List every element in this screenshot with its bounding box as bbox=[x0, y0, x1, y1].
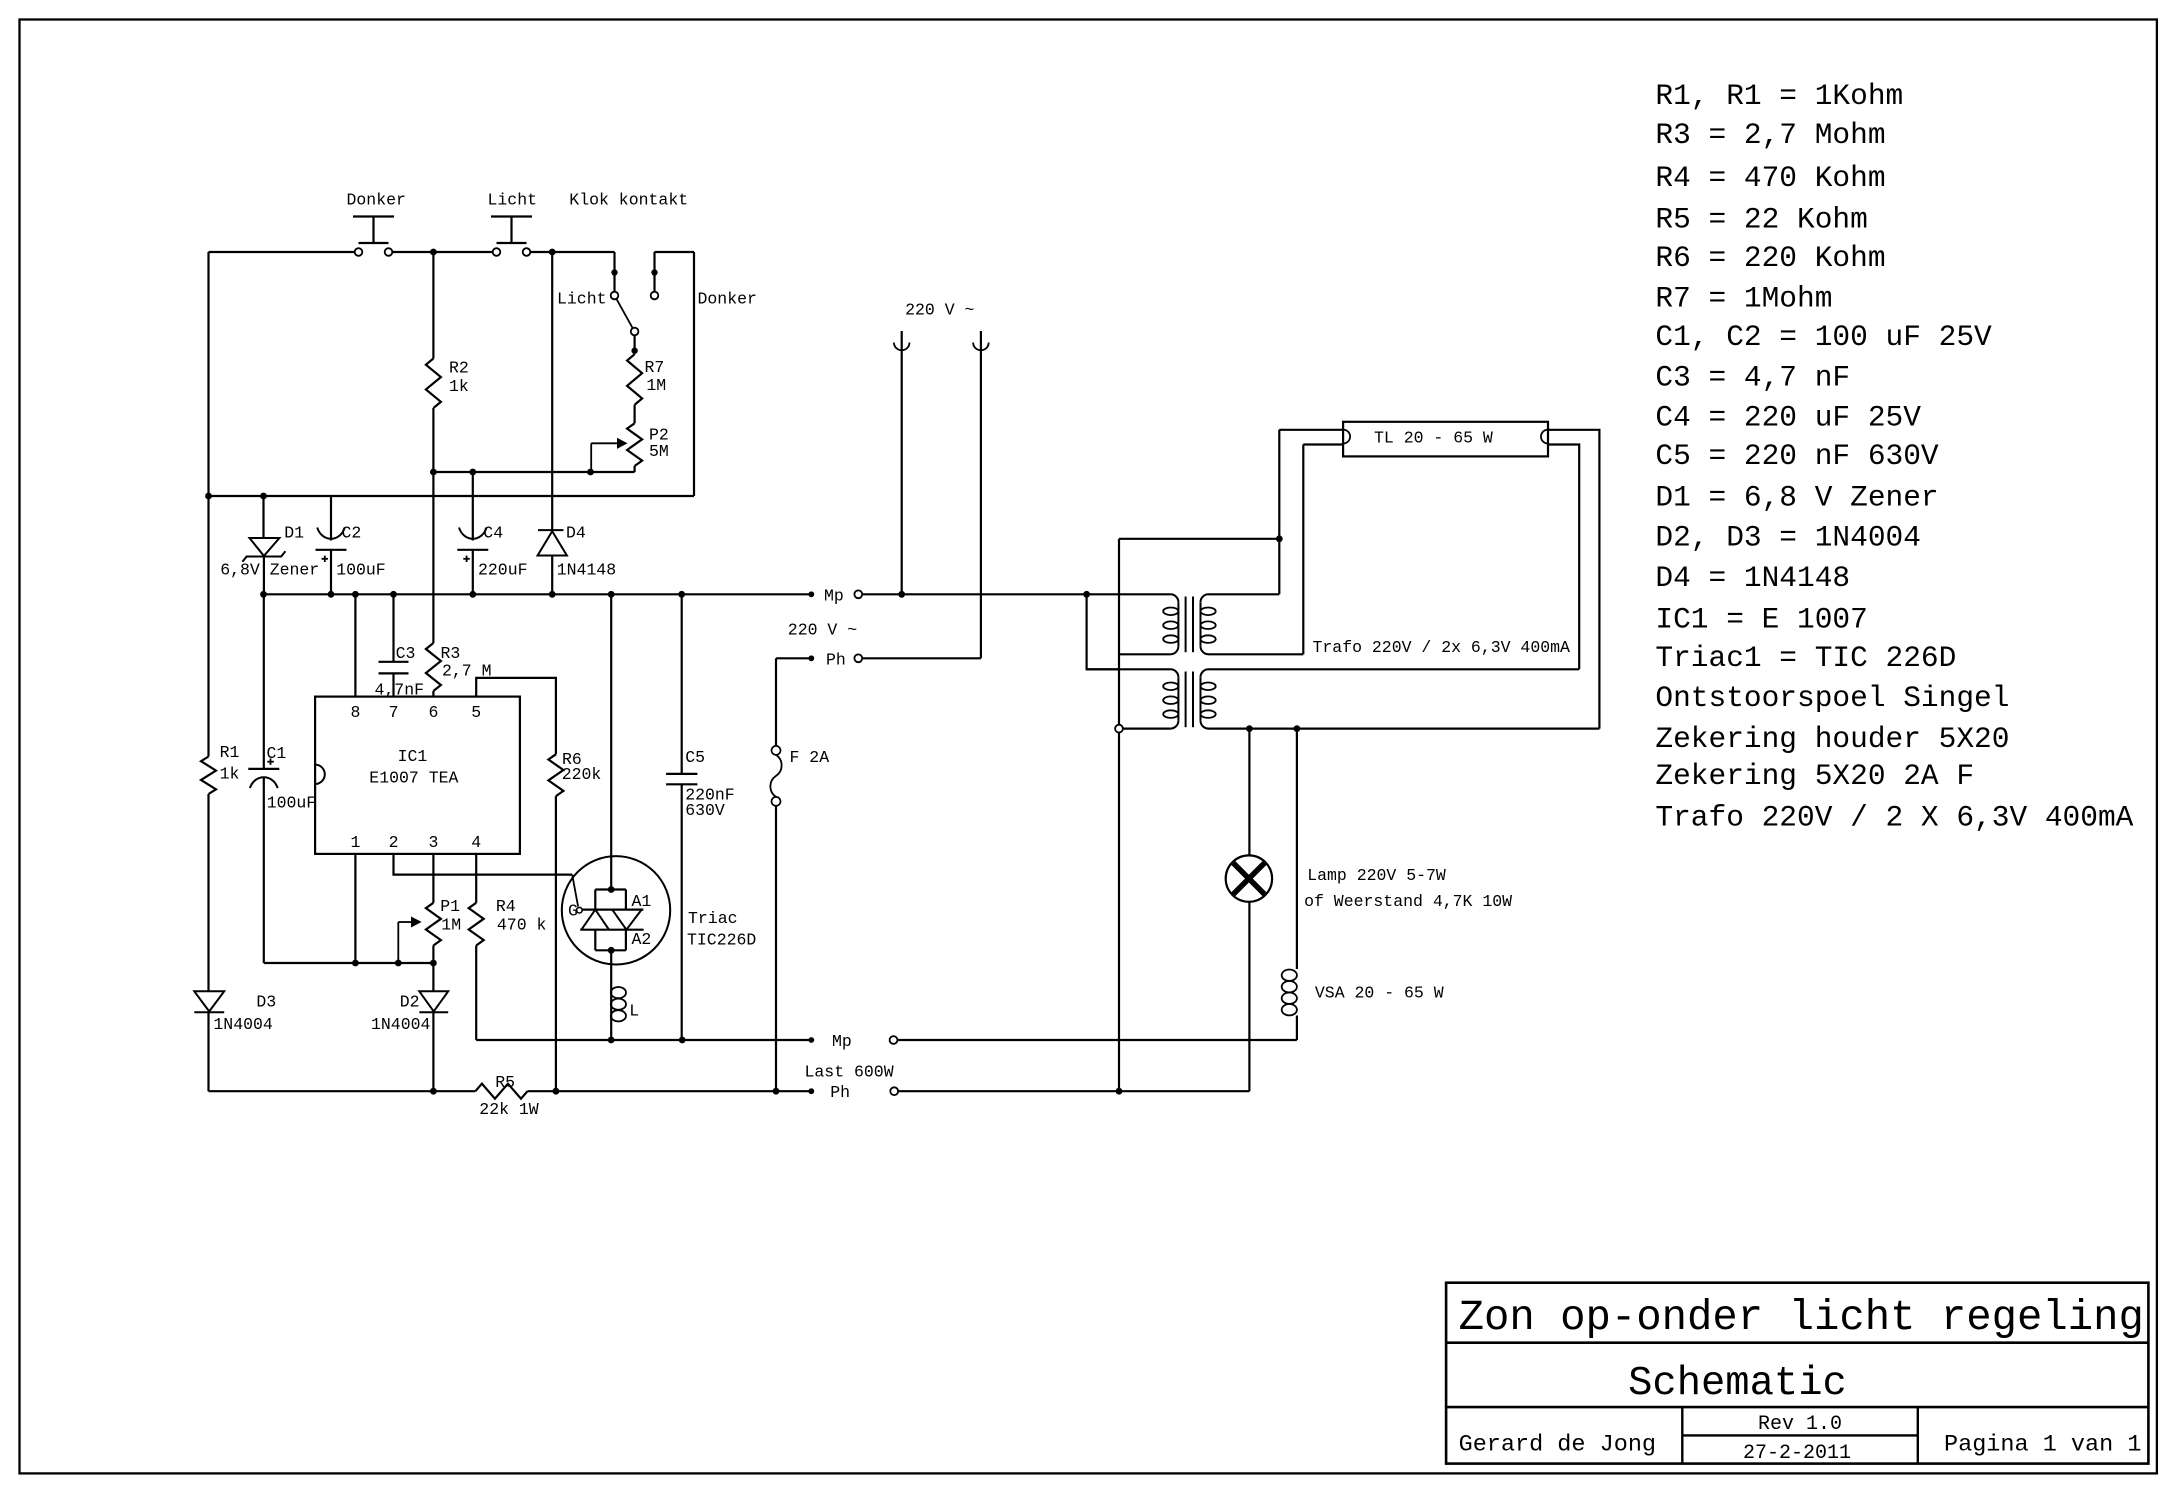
svg-text:C3 = 4,7 nF: C3 = 4,7 nF bbox=[1655, 360, 1850, 394]
svg-text:Klok kontakt: Klok kontakt bbox=[569, 191, 688, 210]
node D2 bottom bbox=[430, 1088, 437, 1095]
svg-text:5M: 5M bbox=[649, 442, 669, 461]
svg-text:Zekering 5X20 2A F: Zekering 5X20 2A F bbox=[1655, 759, 1974, 793]
wire box bottom rail bbox=[209, 495, 695, 497]
switch pole node bbox=[631, 328, 639, 336]
lamp Lamp 220V 5-7W bbox=[1248, 729, 1250, 856]
svg-text:D1 = 6,8 V Zener: D1 = 6,8 V Zener bbox=[1655, 481, 1938, 515]
svg-text:220 V ~: 220 V ~ bbox=[788, 621, 857, 640]
title block bbox=[1446, 1283, 2148, 1464]
wire pin3 down bbox=[432, 854, 434, 903]
svg-text:R4 = 470 Kohm: R4 = 470 Kohm bbox=[1655, 161, 1885, 195]
svg-text:470 k: 470 k bbox=[497, 916, 547, 935]
svg-text:Ph: Ph bbox=[826, 650, 846, 669]
capacitor C1 bbox=[263, 594, 265, 769]
svg-text:Trafo 220V / 2 X 6,3V 400mA: Trafo 220V / 2 X 6,3V 400mA bbox=[1655, 800, 2133, 834]
svg-text:R6 = 220 Kohm: R6 = 220 Kohm bbox=[1655, 241, 1885, 275]
wire after Licht button bbox=[530, 251, 614, 253]
node P1 wiper on rail bbox=[395, 960, 402, 967]
transformer T2 core lower bbox=[1185, 672, 1187, 728]
resistor R6 bbox=[548, 754, 563, 796]
wire Last Ph rail right bbox=[898, 1090, 1249, 1092]
svg-text:8: 8 bbox=[351, 703, 361, 722]
svg-text:1: 1 bbox=[351, 833, 361, 852]
potentiometer P1 bbox=[426, 903, 441, 946]
svg-text:R4: R4 bbox=[496, 897, 516, 916]
wire Mp rail right bbox=[862, 593, 1170, 595]
svg-text:VSA 20 - 65 W: VSA 20 - 65 W bbox=[1315, 984, 1444, 1003]
svg-text:F 2A: F 2A bbox=[790, 748, 830, 767]
wire TL right pin B loop bbox=[1548, 445, 1579, 670]
svg-text:Rev 1.0: Rev 1.0 bbox=[1758, 1413, 1842, 1436]
svg-text:D3: D3 bbox=[256, 992, 276, 1011]
svg-text:Ontstoorspoel Singel: Ontstoorspoel Singel bbox=[1655, 681, 2009, 715]
svg-text:Licht: Licht bbox=[488, 191, 538, 210]
svg-text:R1: R1 bbox=[220, 743, 240, 762]
junction on Mp rail bbox=[469, 591, 476, 598]
wire C1 bottom rail bbox=[264, 962, 434, 964]
svg-text:E1007 TEA: E1007 TEA bbox=[369, 768, 458, 787]
P1 wiper arrow bbox=[398, 921, 414, 923]
capacitor C5 bbox=[681, 594, 683, 774]
AC source arrow right bbox=[980, 331, 982, 658]
wire lower transformer vertical below circle bbox=[1118, 729, 1120, 1092]
svg-text:Gerard de Jong: Gerard de Jong bbox=[1459, 1432, 1656, 1459]
svg-text:D2: D2 bbox=[400, 992, 420, 1011]
svg-text:3: 3 bbox=[429, 833, 439, 852]
resistor R4 bbox=[469, 903, 484, 946]
svg-text:220uF: 220uF bbox=[478, 561, 528, 580]
svg-text:R5: R5 bbox=[495, 1073, 515, 1092]
node L bottom bbox=[608, 1037, 615, 1044]
node transformer vertical on Ph rail bbox=[1116, 1088, 1123, 1095]
node P2 wiper on rail bbox=[587, 469, 594, 476]
svg-text:R3 = 2,7 Mohm: R3 = 2,7 Mohm bbox=[1655, 118, 1885, 152]
wire Ph to 220V bbox=[862, 657, 981, 659]
svg-text:1k: 1k bbox=[449, 377, 469, 396]
node pin1 on rail bbox=[352, 960, 359, 967]
svg-text:R3: R3 bbox=[441, 644, 461, 663]
svg-text:Last 600W: Last 600W bbox=[805, 1063, 894, 1082]
svg-text:1M: 1M bbox=[441, 916, 461, 935]
wire pin5 to R6 bbox=[476, 678, 556, 754]
fuse F2A bbox=[775, 658, 777, 746]
svg-text:220 V ~: 220 V ~ bbox=[905, 301, 974, 320]
resistor R5 bbox=[475, 1084, 527, 1099]
wire A2 down bbox=[610, 950, 612, 985]
svg-text:IC1: IC1 bbox=[398, 747, 428, 766]
svg-text:2: 2 bbox=[389, 833, 399, 852]
svg-text:7: 7 bbox=[389, 703, 399, 722]
resistor R1 bbox=[207, 496, 209, 757]
svg-text:Ph: Ph bbox=[830, 1083, 850, 1102]
wire Ph top bbox=[776, 657, 809, 659]
svg-text:TL 20 - 65 W: TL 20 - 65 W bbox=[1374, 429, 1493, 448]
svg-text:1k: 1k bbox=[220, 765, 240, 784]
wire TL right pin A loop bbox=[1548, 430, 1599, 729]
node 220V left on Mp rail bbox=[898, 591, 905, 598]
svg-text:Triac1 = TIC 226D: Triac1 = TIC 226D bbox=[1655, 641, 1956, 675]
svg-text:Donker: Donker bbox=[347, 191, 406, 210]
terminal Ph circle bbox=[854, 654, 862, 662]
svg-text:100uF: 100uF bbox=[336, 561, 386, 580]
node lamp top bbox=[1246, 725, 1253, 732]
svg-text:Trafo 220V / 2x 6,3V 400mA: Trafo 220V / 2x 6,3V 400mA bbox=[1313, 638, 1571, 657]
wire Donker contact branch bbox=[655, 251, 695, 253]
wire TL pinA vertical bbox=[1118, 539, 1120, 729]
svg-text:C1: C1 bbox=[267, 744, 287, 763]
resistor R3 bbox=[432, 472, 434, 643]
ballast coil VSA bbox=[1296, 729, 1298, 969]
wire left vertical bbox=[207, 252, 209, 496]
push button Donker bbox=[353, 215, 394, 217]
svg-text:D2, D3 = 1N4004: D2, D3 = 1N4004 bbox=[1655, 521, 1921, 555]
node VSA top bbox=[1294, 725, 1301, 732]
transformer T1 core upper bbox=[1185, 597, 1187, 653]
junction on Mp rail bbox=[549, 591, 556, 598]
terminal Ph pin bbox=[808, 655, 814, 661]
svg-text:Triac: Triac bbox=[688, 909, 738, 928]
svg-text:5: 5 bbox=[471, 703, 481, 722]
wire pin1 down bbox=[354, 854, 356, 963]
zener diode D1 bbox=[260, 493, 267, 500]
wire TL pinA branch bbox=[1278, 430, 1280, 595]
wire rail R2-C4-P2 bbox=[433, 471, 634, 473]
svg-text:R1, R1 = 1Kohm: R1, R1 = 1Kohm bbox=[1655, 79, 1903, 113]
node R6 bottom bbox=[553, 1088, 560, 1095]
svg-text:220k: 220k bbox=[562, 765, 602, 784]
svg-text:1N4004: 1N4004 bbox=[213, 1015, 273, 1034]
node Licht-D4 junction bbox=[549, 249, 556, 256]
svg-text:Lamp 220V 5-7W: Lamp 220V 5-7W bbox=[1307, 866, 1446, 885]
svg-text:Zon op-onder licht regeling: Zon op-onder licht regeling bbox=[1459, 1294, 2144, 1342]
svg-text:6,8V Zener: 6,8V Zener bbox=[220, 561, 319, 580]
svg-text:C3: C3 bbox=[396, 644, 416, 663]
svg-text:Schematic: Schematic bbox=[1628, 1361, 1847, 1407]
svg-text:100uF: 100uF bbox=[267, 794, 317, 813]
wire Mp rail bbox=[264, 593, 809, 595]
wire lower transformer top rail bbox=[1087, 668, 1171, 670]
svg-text:22k 1W: 22k 1W bbox=[479, 1100, 539, 1119]
svg-text:R2: R2 bbox=[449, 358, 469, 377]
svg-text:G: G bbox=[568, 902, 578, 921]
wire box right edge bbox=[693, 252, 695, 496]
terminal Mp circle bbox=[854, 590, 862, 598]
svg-text:D4: D4 bbox=[566, 524, 586, 543]
svg-text:C5: C5 bbox=[685, 748, 705, 767]
svg-text:IC1 = E 1007: IC1 = E 1007 bbox=[1655, 602, 1867, 636]
inductor L bbox=[610, 985, 612, 1040]
fluorescent tube TL bbox=[1343, 422, 1548, 457]
wire pin8 to Mp rail bbox=[354, 594, 356, 696]
terminal Last Mp pin bbox=[808, 1037, 814, 1043]
svg-text:C2: C2 bbox=[342, 524, 362, 543]
diode D2 bbox=[419, 991, 448, 1011]
svg-text:TIC226D: TIC226D bbox=[687, 931, 756, 950]
capacitor C3 bbox=[392, 594, 394, 662]
switch Klok kontakt left throw Licht bbox=[613, 252, 615, 292]
P2 wiper arrow bbox=[591, 442, 620, 444]
svg-text:D1: D1 bbox=[284, 524, 304, 543]
node P1 bottom bbox=[430, 960, 437, 967]
node R2 top bbox=[430, 249, 437, 256]
wire top rail left bbox=[209, 251, 355, 253]
node rail left bbox=[430, 469, 437, 476]
wire TL pinB branch bbox=[1302, 445, 1304, 655]
svg-text:L: L bbox=[629, 1002, 639, 1021]
node C5 bottom bbox=[679, 1037, 686, 1044]
IC U1 E1007 box bbox=[315, 697, 520, 854]
node C4 top on rail bbox=[469, 469, 476, 476]
svg-text:A1: A1 bbox=[632, 892, 652, 911]
svg-text:of Weerstand 4,7K 10W: of Weerstand 4,7K 10W bbox=[1304, 892, 1512, 911]
wire Last Ph rail mid bbox=[528, 1090, 809, 1092]
wire Last Ph rail left bbox=[209, 1090, 476, 1092]
capacitor C4 bbox=[472, 472, 474, 541]
svg-text:R7 = 1Mohm: R7 = 1Mohm bbox=[1655, 281, 1832, 315]
diode D3 bbox=[194, 991, 224, 1011]
resistor R2 bbox=[432, 252, 434, 359]
transformer T1 primary upper bbox=[1170, 594, 1178, 602]
svg-text:P1: P1 bbox=[440, 897, 460, 916]
node F2A bottom bbox=[773, 1088, 780, 1095]
svg-text:R5 = 22 Kohm: R5 = 22 Kohm bbox=[1655, 202, 1867, 236]
svg-text:1N4148: 1N4148 bbox=[557, 561, 616, 580]
wire Mp rail to secondary top bbox=[1209, 593, 1280, 595]
svg-text:6: 6 bbox=[429, 703, 439, 722]
transformer T2 secondary lower bbox=[1201, 669, 1209, 677]
diode D4 bbox=[538, 529, 564, 531]
junction on Mp rail bbox=[352, 591, 359, 598]
wire D4 column upper bbox=[551, 252, 553, 530]
svg-text:Zekering houder 5X20: Zekering houder 5X20 bbox=[1655, 722, 2009, 756]
svg-text:1M: 1M bbox=[646, 376, 666, 395]
wire TL left pins bbox=[1279, 429, 1343, 431]
svg-text:C4: C4 bbox=[483, 524, 503, 543]
wire Last Mp rail right bbox=[897, 1039, 1297, 1041]
svg-text:R7: R7 bbox=[645, 358, 665, 377]
svg-text:Licht: Licht bbox=[557, 289, 607, 308]
svg-text:Pagina 1 van 1: Pagina 1 van 1 bbox=[1944, 1432, 2141, 1459]
terminal Last Mp circle bbox=[890, 1036, 898, 1044]
junction on Mp rail bbox=[390, 591, 397, 598]
svg-text:Mp: Mp bbox=[832, 1032, 852, 1051]
wire Mp branch down bbox=[1087, 594, 1119, 669]
capacitor C2 bbox=[330, 496, 332, 541]
switch lever bbox=[616, 299, 632, 328]
triac Triac1 TIC226D bbox=[610, 594, 612, 889]
svg-text:4: 4 bbox=[471, 833, 481, 852]
transformer T2 primary lower bbox=[1170, 669, 1178, 677]
svg-text:D4 = 1N4148: D4 = 1N4148 bbox=[1655, 561, 1850, 595]
svg-text:1N4004: 1N4004 bbox=[371, 1015, 431, 1034]
svg-text:C5 = 220 nF 630V: C5 = 220 nF 630V bbox=[1655, 439, 1939, 473]
terminal Mp pin bbox=[808, 591, 814, 597]
wire pin2 to triac gate bbox=[394, 854, 573, 875]
resistor R7 bbox=[627, 354, 642, 405]
AC source arrow left bbox=[901, 331, 903, 594]
node left vertical T bbox=[205, 493, 212, 500]
node Mp branch bbox=[1083, 591, 1090, 598]
potentiometer P2 bbox=[627, 423, 642, 466]
junction on Mp rail bbox=[260, 591, 267, 598]
terminal Last Ph pin bbox=[808, 1088, 814, 1094]
junction on Mp rail bbox=[328, 591, 335, 598]
push button Licht bbox=[491, 215, 532, 217]
wire Last Mp rail bbox=[476, 1039, 808, 1041]
wire pin4 down bbox=[475, 854, 477, 903]
wire R7 to P2 bbox=[633, 405, 635, 424]
svg-text:C4 = 220 uF 25V: C4 = 220 uF 25V bbox=[1655, 400, 1921, 434]
terminal Last Ph circle bbox=[890, 1087, 898, 1095]
svg-text:Mp: Mp bbox=[824, 586, 844, 605]
wire between buttons bbox=[392, 251, 492, 253]
terminal transformer open circle bbox=[1115, 725, 1123, 733]
transformer T1 secondary upper bbox=[1201, 594, 1209, 602]
svg-text:C1, C2 = 100 uF 25V: C1, C2 = 100 uF 25V bbox=[1655, 320, 1992, 354]
svg-text:Donker: Donker bbox=[698, 289, 757, 308]
junction on Mp rail bbox=[608, 591, 615, 598]
svg-text:A2: A2 bbox=[632, 930, 652, 949]
svg-text:630V: 630V bbox=[685, 801, 725, 820]
triac gate node bbox=[577, 907, 583, 913]
svg-text:27-2-2011: 27-2-2011 bbox=[1743, 1442, 1851, 1465]
junction on Mp rail bbox=[678, 591, 685, 598]
switch Klok kontakt right throw Donker bbox=[653, 252, 655, 292]
